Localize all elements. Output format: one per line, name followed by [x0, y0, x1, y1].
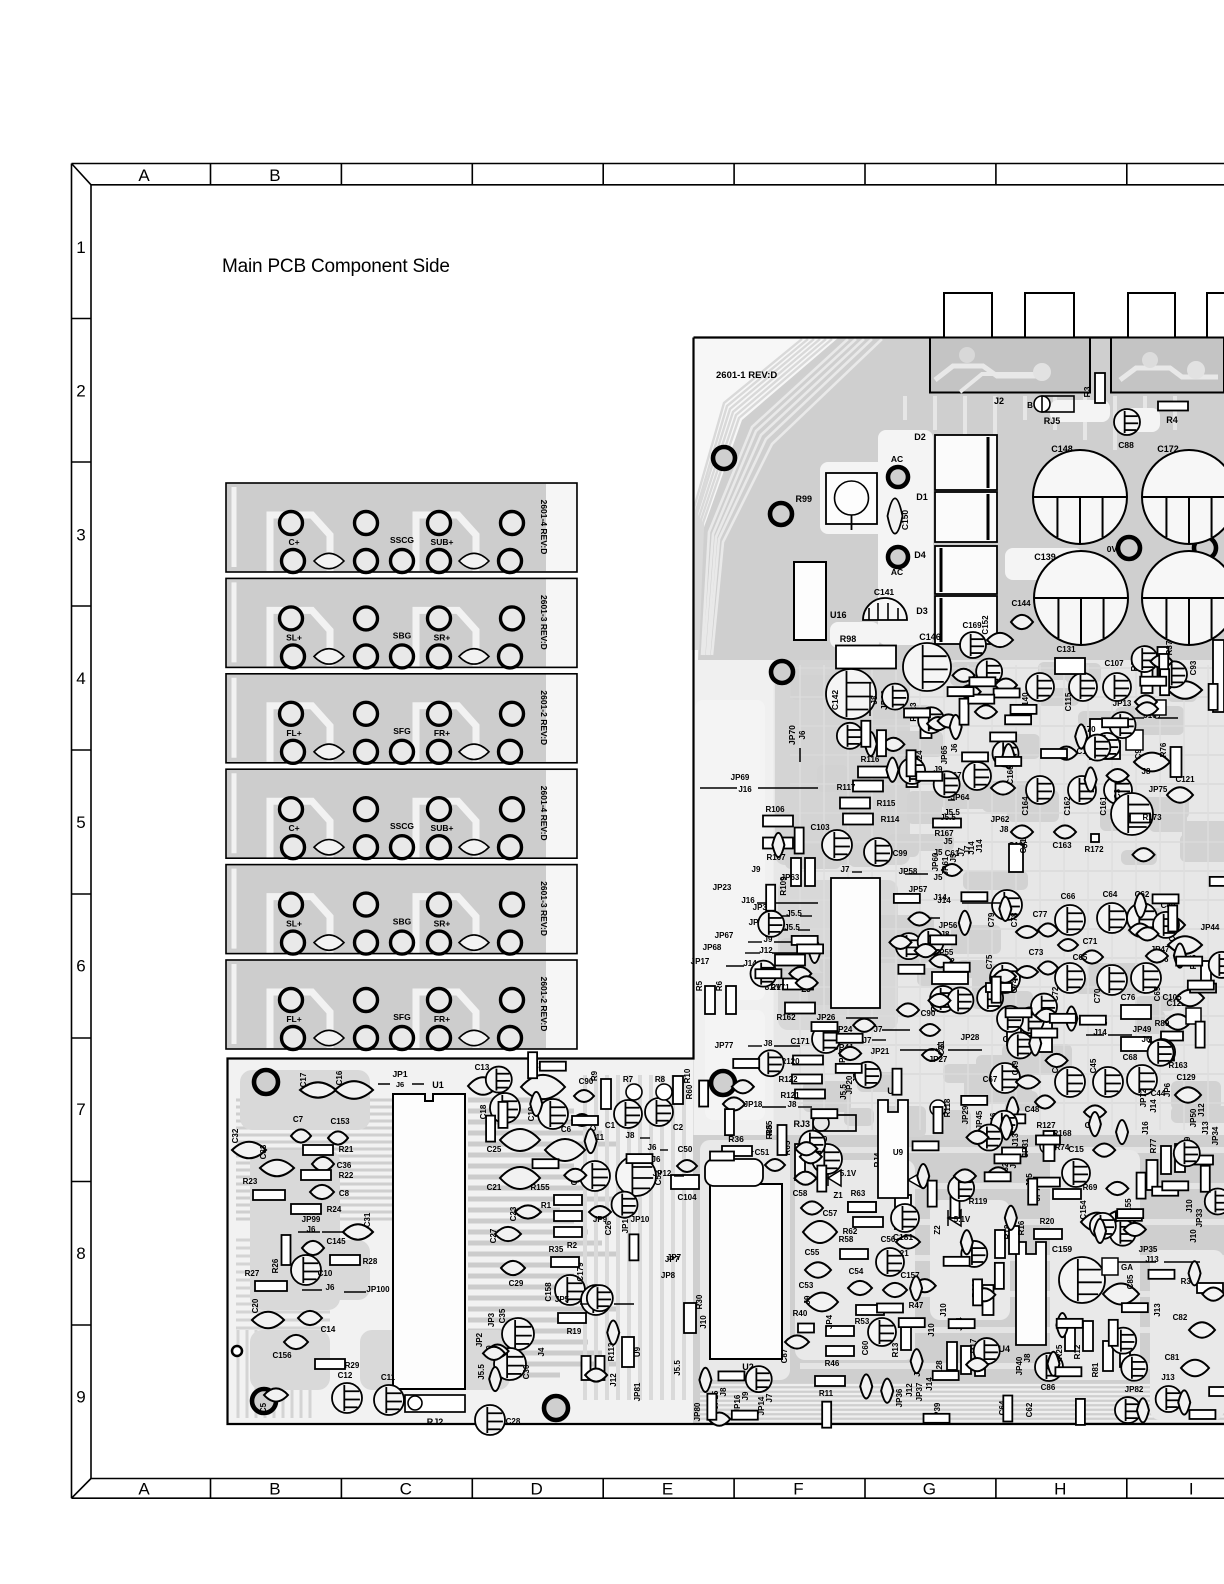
capacitor C55	[805, 1262, 831, 1277]
svg-text:RJ5: RJ5	[1044, 416, 1061, 426]
capacitor C157	[883, 1283, 907, 1297]
wire	[900, 1049, 934, 1051]
svg-text:4: 4	[76, 669, 85, 688]
resistor R3	[1095, 373, 1105, 403]
capacitor C167	[963, 762, 991, 790]
svg-text:R22: R22	[339, 1171, 354, 1180]
capacitor C20	[252, 1312, 284, 1329]
capacitor C58	[801, 1201, 823, 1214]
svg-text:R99: R99	[795, 494, 812, 504]
copper islands texture	[775, 660, 910, 865]
svg-text:D4: D4	[914, 550, 926, 560]
resistor	[1028, 1179, 1037, 1205]
svg-text:C99: C99	[893, 849, 908, 858]
resistor	[962, 752, 988, 761]
capacitor	[1150, 655, 1172, 668]
resistor	[486, 1116, 495, 1142]
capacitor	[1065, 1006, 1077, 1030]
svg-text:R23: R23	[243, 1177, 258, 1186]
resistor R47	[877, 1304, 903, 1313]
wire	[757, 902, 818, 904]
svg-text:R119: R119	[969, 1197, 988, 1206]
capacitor C81	[1181, 1360, 1209, 1377]
cap C142	[826, 669, 876, 719]
resistor R55	[1201, 961, 1211, 989]
resistor R38	[1142, 663, 1153, 693]
svg-text:J10: J10	[1185, 1199, 1194, 1213]
svg-text:C156: C156	[272, 1351, 292, 1360]
capacitor C29	[501, 1261, 525, 1275]
capacitor C18	[490, 1093, 520, 1123]
resistor R75	[1147, 1160, 1158, 1190]
capacitor C47	[1055, 1067, 1085, 1097]
resistor R7	[626, 1084, 642, 1100]
cap C148	[1033, 450, 1127, 544]
svg-text:J10: J10	[927, 1323, 936, 1337]
capacitor C140	[1026, 673, 1054, 701]
pad G	[1152, 700, 1166, 715]
resistor	[1162, 1181, 1188, 1190]
capacitor	[1094, 733, 1120, 759]
pad G	[1126, 730, 1143, 750]
capacitor C26	[589, 1206, 611, 1218]
wire	[758, 787, 818, 789]
capacitor	[1056, 1313, 1068, 1337]
svg-text:C+: C+	[288, 823, 299, 833]
capacitor C73	[1038, 961, 1058, 974]
svg-text:A: A	[138, 166, 150, 185]
svg-text:C70: C70	[1093, 988, 1102, 1003]
ring AC	[888, 547, 908, 567]
capacitor	[1094, 1219, 1106, 1243]
svg-text:C78: C78	[1010, 912, 1019, 927]
capacitor	[486, 1067, 512, 1093]
resistor R1	[554, 1211, 582, 1221]
wire	[962, 902, 1000, 904]
resistor	[999, 1114, 1025, 1123]
capacitor C103	[822, 830, 852, 860]
resistor	[913, 1141, 939, 1150]
resistor R21	[303, 1145, 333, 1155]
wire	[800, 915, 812, 917]
svg-text:JP70: JP70	[787, 725, 797, 745]
capacitor	[796, 976, 818, 989]
capacitor	[1121, 1355, 1147, 1381]
svg-text:J10: J10	[939, 1303, 948, 1317]
svg-text:A: A	[138, 1480, 150, 1499]
svg-text:C35: C35	[498, 1308, 507, 1323]
svg-text:C139: C139	[1034, 552, 1056, 562]
wire	[920, 917, 940, 919]
cap C146	[903, 643, 951, 691]
svg-text:2601-4 REV:D: 2601-4 REV:D	[539, 500, 549, 555]
svg-text:R16: R16	[1017, 1220, 1026, 1235]
capacitor	[1209, 952, 1224, 978]
resistor R114	[843, 814, 873, 825]
svg-text:I: I	[1189, 1480, 1194, 1499]
capacitor	[882, 684, 908, 710]
resistor	[699, 1081, 708, 1107]
svg-text:8: 8	[76, 1244, 85, 1263]
svg-text:JP56: JP56	[939, 921, 958, 930]
svg-text:7: 7	[76, 1100, 85, 1119]
svg-text:JP13: JP13	[1113, 699, 1132, 708]
capacitor	[938, 714, 960, 727]
svg-text:R28: R28	[363, 1257, 378, 1266]
svg-text:SFG: SFG	[393, 726, 411, 736]
capacitor	[772, 833, 784, 857]
resistor R155	[554, 1195, 582, 1205]
svg-text:JP100: JP100	[366, 1285, 390, 1294]
resistor R74 pad	[1040, 1138, 1056, 1154]
capacitor	[915, 944, 937, 957]
svg-text:J5.5: J5.5	[839, 1084, 848, 1100]
svg-text:C8: C8	[339, 1189, 350, 1198]
resistor	[861, 721, 870, 747]
resistor	[1159, 654, 1168, 680]
resistor R121	[795, 1090, 825, 1099]
svg-text:C2: C2	[673, 1123, 684, 1132]
svg-text:R60: R60	[685, 1084, 694, 1099]
svg-text:C164: C164	[1021, 796, 1030, 816]
svg-text:FR+: FR+	[434, 1014, 450, 1024]
capacitor C161	[1104, 776, 1132, 804]
wire	[302, 1289, 322, 1291]
capacitor C1	[614, 1100, 642, 1128]
svg-text:C17: C17	[299, 1072, 308, 1087]
wire	[726, 965, 744, 967]
resistor R98	[836, 646, 896, 669]
svg-text:C69: C69	[1153, 986, 1162, 1001]
svg-text:C86: C86	[1041, 1383, 1056, 1392]
capacitor	[976, 1125, 1002, 1151]
svg-text:C49: C49	[1011, 1060, 1020, 1075]
resistor	[990, 732, 1016, 741]
capacitor	[961, 1241, 987, 1267]
svg-text:H: H	[1054, 1480, 1066, 1499]
capacitor	[1174, 943, 1186, 967]
resistor	[949, 1319, 975, 1328]
svg-text:JP29: JP29	[961, 1105, 970, 1124]
capacitor	[1189, 1261, 1201, 1285]
svg-text:JP35: JP35	[1139, 1245, 1158, 1254]
svg-text:SSCG: SSCG	[390, 821, 414, 831]
resistor	[626, 1154, 652, 1163]
svg-text:F: F	[793, 1480, 803, 1499]
capacitor	[1093, 1144, 1115, 1157]
resistor	[916, 772, 942, 781]
svg-text:R20: R20	[1040, 1217, 1055, 1226]
resistor R12	[1083, 1321, 1093, 1351]
svg-text:J5.5: J5.5	[940, 813, 956, 822]
svg-text:2601-2 REV:D: 2601-2 REV:D	[539, 690, 549, 745]
svg-text:C28: C28	[506, 1417, 521, 1426]
resistor	[995, 1263, 1004, 1289]
svg-text:JP3: JP3	[487, 1312, 496, 1327]
resistor	[1109, 1320, 1118, 1346]
wire	[772, 915, 790, 917]
resistor	[944, 963, 970, 972]
svg-text:JP7: JP7	[667, 1253, 682, 1262]
svg-text:C23: C23	[509, 1206, 518, 1221]
svg-text:U9: U9	[893, 1148, 904, 1157]
resistor	[1190, 984, 1216, 993]
svg-text:C79: C79	[987, 912, 996, 927]
wire	[756, 965, 776, 967]
svg-text:Z2: Z2	[933, 1225, 942, 1235]
wire	[322, 1231, 344, 1233]
svg-text:5.1V: 5.1V	[954, 1215, 971, 1224]
svg-text:C21: C21	[487, 1183, 502, 1192]
capacitor	[882, 738, 904, 751]
svg-text:D1: D1	[916, 492, 928, 502]
svg-text:C+: C+	[288, 537, 299, 547]
resistor	[1188, 981, 1214, 990]
resistor R65	[795, 1144, 805, 1180]
resistor R85	[778, 1125, 787, 1155]
capacitor	[1148, 1040, 1174, 1066]
svg-text:C13: C13	[475, 1063, 490, 1072]
capacitor C177	[897, 1003, 919, 1016]
svg-text:JP80: JP80	[693, 1402, 702, 1421]
capacitor C6	[545, 1139, 585, 1161]
resistor	[924, 1414, 950, 1423]
mounting hole	[770, 503, 792, 525]
main PCB copper region	[228, 338, 1224, 1425]
svg-text:C48: C48	[1025, 1105, 1040, 1114]
capacitor	[795, 1142, 817, 1155]
capacitor C59	[812, 1144, 842, 1174]
svg-text:C73: C73	[1029, 948, 1044, 957]
wire	[772, 952, 798, 954]
connector block 2601-2 REV:D (FL+/SFG/FR+)	[226, 674, 577, 764]
wire	[748, 941, 762, 943]
IC U2	[710, 1184, 782, 1359]
capacitor C2	[645, 1098, 673, 1126]
svg-text:C172: C172	[1157, 444, 1179, 454]
svg-text:C14: C14	[321, 1325, 336, 1334]
svg-text:C29: C29	[509, 1279, 524, 1288]
svg-text:J10: J10	[1189, 1229, 1198, 1243]
svg-text:J5.5: J5.5	[673, 1360, 682, 1376]
capacitor	[585, 1129, 597, 1153]
resistor	[1011, 705, 1037, 714]
cap C88	[1114, 409, 1140, 435]
capacitor C56	[876, 1248, 904, 1276]
svg-text:J4: J4	[537, 1347, 546, 1356]
resistor R63	[848, 1202, 876, 1212]
svg-text:C51: C51	[755, 1148, 770, 1157]
capacitor	[1153, 912, 1179, 938]
resistor	[1196, 1022, 1205, 1048]
ring 0V	[1118, 537, 1140, 559]
svg-text:JP21: JP21	[871, 1047, 890, 1056]
resistor	[973, 1279, 982, 1305]
svg-text:SBG: SBG	[393, 917, 412, 927]
resistor	[1116, 1212, 1142, 1221]
svg-text:C65: C65	[1073, 953, 1088, 962]
IC U3	[878, 1100, 908, 1198]
svg-text:JP99: JP99	[302, 1215, 321, 1224]
svg-text:C103: C103	[810, 823, 830, 832]
capacitor C106	[1168, 936, 1202, 954]
resistor	[533, 1159, 559, 1168]
svg-text:J10: J10	[699, 1315, 708, 1329]
svg-text:JP77: JP77	[715, 1041, 734, 1050]
svg-text:5.1V: 5.1V	[840, 1169, 857, 1178]
resistor R29	[315, 1359, 345, 1369]
capacitor C14	[298, 1311, 322, 1325]
capacitor	[699, 1368, 711, 1392]
svg-text:C76: C76	[1121, 993, 1136, 1002]
resistor R24	[291, 1204, 321, 1214]
capacitor C12	[332, 1383, 362, 1413]
svg-text:R172: R172	[1084, 845, 1104, 854]
svg-text:J14: J14	[933, 893, 947, 902]
svg-text:C1: C1	[605, 1121, 616, 1130]
svg-text:C53: C53	[799, 1281, 814, 1290]
capacitor	[1106, 1182, 1128, 1195]
svg-text:J9: J9	[752, 865, 761, 874]
wire	[1128, 717, 1144, 719]
capacitor C170	[1090, 719, 1120, 737]
trimmer R99	[826, 473, 877, 524]
wire	[344, 1291, 366, 1293]
diode D5	[908, 1172, 922, 1188]
resistor	[822, 1402, 831, 1428]
capacitor	[954, 1169, 976, 1182]
capacitor	[1085, 767, 1097, 791]
diode block D4	[935, 546, 997, 594]
wire	[948, 1049, 982, 1051]
resistor R162	[785, 1003, 815, 1014]
svg-text:C150: C150	[900, 510, 910, 531]
capacitor	[997, 1006, 1023, 1032]
resistor R119	[951, 1194, 960, 1218]
resistor	[1148, 1270, 1174, 1279]
resistor	[877, 730, 886, 756]
capacitor C155	[1104, 1211, 1136, 1230]
connector block 2601-3 REV:D (SL+/SBG/SR+)	[226, 865, 577, 955]
resistor	[1005, 715, 1031, 724]
cap C181	[891, 1204, 919, 1232]
resistor R10	[673, 1076, 683, 1104]
connector block 2601-2 REV:D (FL+/SFG/FR+)	[226, 960, 577, 1050]
resistor R109	[791, 858, 801, 886]
wire	[1116, 1261, 1156, 1263]
capacitor C76	[1121, 1005, 1151, 1019]
capacitor	[1107, 769, 1129, 782]
resistor	[1080, 1016, 1106, 1025]
svg-text:R162: R162	[776, 1013, 796, 1022]
capacitor	[732, 1080, 754, 1093]
capacitor	[530, 1092, 542, 1116]
svg-text:C31: C31	[363, 1212, 372, 1227]
svg-text:J12: J12	[905, 1383, 914, 1397]
pad GA	[1102, 1258, 1118, 1275]
capacitor	[1000, 1115, 1012, 1139]
svg-text:C148: C148	[1051, 444, 1073, 454]
svg-text:C146: C146	[919, 632, 941, 642]
wire	[1148, 1041, 1160, 1043]
svg-text:JP57: JP57	[909, 885, 928, 894]
resistor R26	[282, 1235, 291, 1265]
resistor	[836, 1064, 862, 1073]
capacitor C93	[1168, 681, 1202, 699]
svg-text:C45: C45	[1089, 1058, 1098, 1073]
capacitor	[1089, 1112, 1101, 1136]
svg-text:C56: C56	[881, 1235, 896, 1244]
capacitor	[917, 1164, 929, 1188]
capacitor C179	[581, 1285, 611, 1315]
resistor	[1102, 718, 1128, 727]
svg-text:J12: J12	[609, 1373, 618, 1387]
diode block D1	[935, 492, 997, 542]
wire	[1108, 1034, 1132, 1036]
svg-text:R6: R6	[715, 980, 724, 991]
svg-text:C67: C67	[983, 1075, 998, 1084]
mounting hole	[252, 1389, 276, 1413]
wire	[798, 1106, 812, 1108]
resistor	[766, 885, 775, 911]
svg-text:C88: C88	[1118, 440, 1134, 450]
wire	[580, 1303, 590, 1305]
svg-text:J5: J5	[944, 837, 953, 846]
capacitor	[607, 1320, 619, 1344]
capacitor	[612, 1192, 638, 1218]
svg-text:J13: J13	[1161, 1373, 1175, 1382]
svg-text:C15: C15	[1068, 1144, 1084, 1154]
svg-text:J13: J13	[1153, 1303, 1162, 1317]
svg-text:B: B	[269, 1480, 280, 1499]
capacitor	[992, 740, 1018, 766]
capacitor C131	[1055, 658, 1085, 674]
svg-text:C50: C50	[678, 1145, 693, 1154]
capacitor	[1116, 1120, 1128, 1144]
resistor	[928, 1181, 937, 1207]
capacitor C31	[343, 1224, 373, 1239]
wire	[1086, 1034, 1104, 1036]
resistor R101	[983, 1285, 994, 1315]
capacitor C13	[468, 1077, 498, 1095]
resistor pair	[582, 1356, 591, 1380]
resistor	[1057, 1319, 1083, 1328]
wire	[872, 1039, 886, 1041]
resistor R102	[975, 1348, 985, 1376]
wire	[1158, 717, 1178, 719]
resistor R81	[1103, 1341, 1113, 1371]
capacitor	[918, 707, 944, 733]
capacitor	[1149, 1039, 1175, 1065]
resistor	[1160, 669, 1169, 695]
capacitor	[799, 1131, 825, 1157]
svg-text:JP67: JP67	[715, 931, 734, 940]
resistor R117	[853, 781, 883, 792]
resistor	[994, 1154, 1020, 1163]
svg-text:JP23: JP23	[713, 883, 732, 892]
resistor	[811, 1022, 837, 1031]
capacitor	[1174, 1140, 1200, 1166]
svg-text:R5: R5	[695, 980, 704, 991]
svg-text:R117: R117	[837, 783, 856, 792]
resistor	[969, 677, 995, 686]
svg-text:JP72: JP72	[1139, 1088, 1148, 1107]
svg-text:C6: C6	[561, 1125, 572, 1134]
resistor	[1209, 1387, 1224, 1396]
wire	[298, 1231, 320, 1233]
resistor R40	[798, 1324, 814, 1333]
resistor	[994, 688, 1020, 697]
